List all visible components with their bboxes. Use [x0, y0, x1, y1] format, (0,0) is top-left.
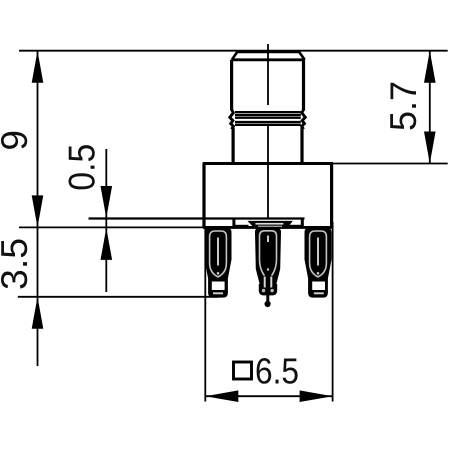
extension line top (y=50.7): [19, 50, 448, 52]
bushing stripe 2: [258, 226, 282, 227]
extension line 6.5 left vertical: [204, 228, 206, 402]
center pin bulb dot left: [262, 289, 265, 292]
centerline: [267, 44, 269, 219]
insulator bushing: [247, 221, 292, 229]
arrow 0.5 lower: [101, 228, 113, 260]
svg-text:3.5: 3.5: [0, 238, 35, 290]
right pin inner outline: [310, 231, 327, 277]
right pin leg interior: [312, 282, 325, 291]
flange top edge: [203, 162, 333, 165]
center pin inner outline: [260, 231, 277, 276]
barrel right side: [302, 60, 305, 111]
neck right side: [300, 128, 303, 164]
svg-text:0.5: 0.5: [62, 144, 103, 191]
barrel chamfer right diagonal: [299, 52, 305, 60]
extension line recess bottom (y=218.5): [89, 217, 305, 219]
flange left side: [202, 164, 205, 228]
center pin silhouette: [255, 228, 281, 286]
dimension line 6.5 horizontal: [205, 395, 332, 397]
center pin fork gap right: [270, 277, 272, 288]
neck left side: [232, 128, 235, 164]
rim line right: [288, 225, 303, 227]
svg-text:9: 9: [0, 130, 35, 151]
barrel chamfer left diagonal: [232, 52, 238, 60]
svg-text:6.5: 6.5: [255, 351, 299, 392]
arrow 6.5 left: [205, 390, 238, 402]
extension line 6.5 right vertical: [332, 222, 334, 402]
left pin foot dash: [213, 292, 223, 294]
arrow 9 bottom / 3.5 top: [32, 195, 44, 227]
arrow 6.5 right: [300, 390, 333, 402]
left pin dot: [217, 272, 220, 275]
right pin slot: [317, 238, 319, 266]
groove right profile: [302, 110, 306, 130]
center pin slot dash: [267, 236, 269, 243]
left pin leg interior: [212, 282, 225, 291]
barrel top edge: [237, 50, 299, 53]
arrow 9 top: [32, 51, 44, 83]
recess step right: [301, 219, 304, 228]
dimension line 5.7 vertical: [429, 51, 431, 164]
left pin silhouette: [205, 228, 232, 298]
label square symbol: [234, 362, 252, 379]
arrow 5.7 bottom: [424, 132, 436, 164]
dimension line 0.5 vertical: [105, 149, 107, 292]
flange bottom edge: [203, 226, 333, 229]
dimension line 9 / 3.5 vertical: [37, 51, 39, 366]
center pin fork gap left: [264, 277, 266, 288]
extension line seating plane (y=227.4): [19, 226, 205, 228]
detent groove lines: [235, 112, 301, 125]
center pin tip dot: [265, 301, 271, 307]
rim line left: [234, 225, 249, 227]
right pin dot: [317, 272, 320, 275]
center pin bulb: [259, 284, 277, 295]
svg-text:5.7: 5.7: [383, 81, 424, 131]
left pin inner outline: [210, 231, 227, 277]
arrow 0.5 upper: [101, 186, 113, 218]
barrel left side: [230, 60, 233, 111]
groove left profile: [230, 110, 234, 130]
left pin slot: [217, 238, 219, 266]
center pin needle: [266, 295, 269, 302]
flange right side: [330, 164, 333, 228]
center pin bulb dot right: [270, 289, 273, 292]
recess step left: [232, 219, 235, 228]
extension line flange top right (y=163.5): [333, 163, 448, 165]
bushing stripe: [255, 223, 283, 225]
arrow 5.7 top: [424, 51, 436, 83]
right pin foot dash: [314, 292, 324, 294]
arrow 3.5 bottom: [32, 297, 44, 329]
center pin small dot: [267, 268, 269, 270]
barrel chamfer line: [232, 58, 305, 61]
right pin silhouette: [305, 228, 332, 298]
extension line pin tips (y=296.8): [18, 296, 218, 298]
